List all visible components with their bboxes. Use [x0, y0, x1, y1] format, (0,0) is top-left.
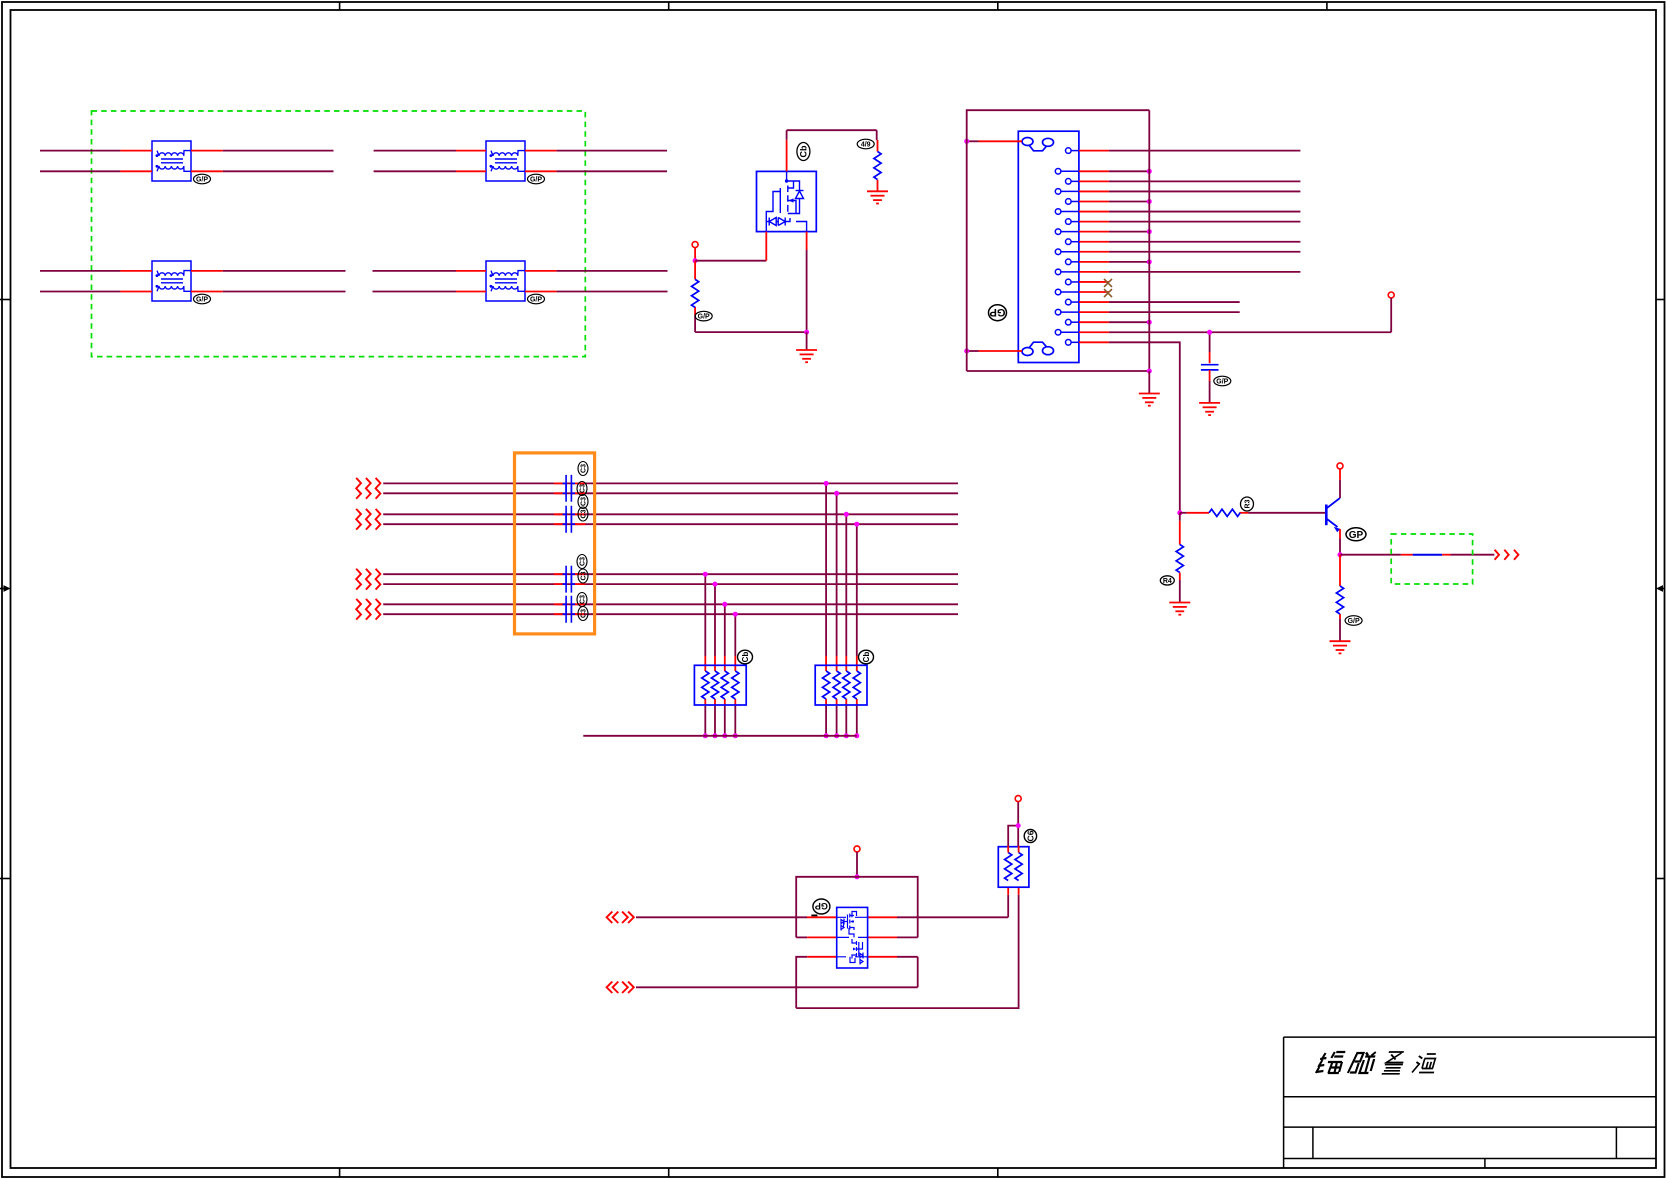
C3 value label — [577, 482, 587, 496]
frame zone tick bottom 2 — [668, 1168, 670, 1177]
C6 value label — [577, 555, 587, 569]
resistor R3 (base series) — [1180, 512, 1325, 514]
resistor network RN1 — [694, 665, 746, 705]
resistor network RN2 — [815, 665, 867, 705]
frame zone tick left 1 — [0, 299, 11, 301]
pin terminal (collector) — [1337, 463, 1343, 469]
wire row2 stubs — [796, 936, 918, 938]
svg-text:G/P: G/P — [1216, 378, 1228, 385]
node top stub — [964, 139, 969, 144]
transformer T1 — [152, 141, 191, 181]
wire RN2 tap 4 — [854, 522, 859, 739]
svg-text:Cb: Cb — [741, 652, 750, 663]
svg-text:C3: C3 — [581, 509, 588, 518]
J1 pin 17 — [1066, 319, 1152, 325]
svg-text:C3: C3 — [580, 557, 587, 566]
J1 pin 11 — [1066, 259, 1152, 265]
resistor R4 (pulldown left) — [1179, 513, 1181, 603]
svg-text:G/P: G/P — [196, 176, 208, 183]
wire top loop — [796, 877, 918, 938]
pin terminal (bottom supply) — [854, 846, 860, 852]
ground (cap) — [1199, 403, 1220, 415]
wire W6 — [383, 583, 958, 585]
pin terminal (row18 top right) — [1388, 292, 1394, 298]
svg-text:GP: GP — [815, 901, 828, 911]
svg-text:G/P: G/P — [530, 176, 542, 183]
T4 right wires — [525, 271, 668, 292]
node cap tap — [1207, 330, 1212, 335]
frame mid arrow left — [0, 585, 11, 592]
J1 pin 4 — [1055, 189, 1300, 195]
wire in1 — [636, 916, 1008, 918]
title block logo text 緯創資通 (hand-drawn strokes) — [1316, 1052, 1439, 1074]
C9 value label — [578, 607, 588, 621]
J1 pin 2 — [1055, 169, 1152, 175]
resistor R5 (emitter) — [1339, 555, 1341, 642]
J1 pin 6 — [1055, 209, 1300, 215]
wire supply drop — [856, 852, 858, 877]
svg-text:C3: C3 — [581, 464, 588, 473]
C1 label G/P — [1214, 376, 1231, 386]
C2 value label — [578, 462, 588, 476]
svg-text:C3: C3 — [580, 484, 587, 493]
J1 label GP (rotated) — [989, 305, 1007, 321]
svg-text:C6: C6 — [1025, 830, 1035, 841]
port marker in1 — [607, 912, 634, 923]
U1 top wire — [787, 130, 877, 171]
ground (U1 circuit) — [796, 350, 817, 362]
frame zone tick top 3 — [997, 2, 999, 10]
wire RN2 tap 2 — [834, 491, 839, 739]
frame zone tick bottom 1 — [339, 1168, 341, 1177]
svg-text:G/P: G/P — [196, 296, 208, 303]
J1 pin 14 — [1055, 289, 1112, 297]
resistor R1 (pulldown) — [694, 261, 696, 332]
svg-text:Cb: Cb — [798, 145, 808, 157]
R4 label — [1160, 576, 1174, 585]
node junction A — [693, 258, 698, 263]
node supply junction — [855, 874, 860, 879]
R1 label G/P — [695, 311, 712, 321]
wire in1 riser to RN3 — [1008, 887, 1018, 917]
wire row3 left — [796, 957, 837, 1008]
wire row3 right — [868, 957, 918, 988]
wire RN1 tap 2 — [713, 582, 718, 739]
transistor Q1 (NPN) — [1326, 498, 1340, 532]
wire bottom loop — [796, 895, 1018, 1008]
svg-text:R4: R4 — [1163, 578, 1172, 585]
port chevrons pair 3 — [356, 569, 380, 590]
wire in2 — [636, 986, 918, 988]
J1 pin 15 — [1066, 299, 1240, 305]
resistor network RN3 — [998, 847, 1029, 888]
J1 pin 10 — [1055, 249, 1300, 255]
svg-text:GP: GP — [990, 306, 1006, 318]
wire RN1 tap 4 — [733, 612, 738, 739]
RN3 label C6 — [1024, 830, 1036, 843]
wire RN1 tap 1 — [703, 572, 708, 739]
frame zone tick bottom 3 — [997, 1168, 999, 1177]
transformer T2 — [486, 141, 525, 181]
capacitor C7 (series on W6) — [563, 576, 575, 593]
T2 left wires — [374, 151, 486, 172]
J1 pin 3 — [1066, 179, 1301, 185]
frame zone tick right 1 — [1656, 299, 1665, 301]
wire pin to junction — [694, 248, 696, 261]
RN3 top stubs — [1008, 802, 1018, 853]
C7 value label — [578, 569, 588, 583]
wire bus to ground — [1148, 371, 1150, 394]
node RN3 junction — [1016, 823, 1021, 828]
wire row18 riser — [1390, 298, 1392, 332]
resistor R2 (top right) — [876, 130, 879, 191]
svg-text:G/P: G/P — [1348, 618, 1360, 625]
T2 label G/P — [528, 174, 545, 184]
T3 label G/P — [194, 294, 211, 304]
C4 value label — [578, 495, 588, 509]
wire emitter to node — [1339, 529, 1341, 555]
ground (R4) — [1169, 603, 1190, 615]
frame zone tick left 2 — [0, 878, 11, 880]
capacitor C8 (series on W7) — [563, 596, 575, 613]
mosfet U1 internals — [766, 171, 806, 231]
svg-text:C3: C3 — [580, 595, 587, 604]
J1 pin 9 — [1066, 239, 1301, 245]
capacitor C3 (series on W2) — [563, 485, 575, 502]
svg-text:G/P: G/P — [698, 314, 710, 321]
wire W8 — [383, 613, 958, 615]
J1 left bottom stub — [967, 350, 1022, 352]
pin terminal (left circle) — [692, 242, 698, 248]
node base junction — [1177, 510, 1182, 515]
port chevrons pair 4 — [356, 599, 380, 620]
R2 label 4/9 — [857, 139, 874, 149]
T1 right wires — [191, 151, 334, 172]
port marker in2 — [607, 982, 634, 993]
Q1 label GP — [1346, 528, 1366, 541]
svg-text:C3: C3 — [581, 609, 588, 618]
wire RN1 tap 3 — [722, 602, 727, 739]
wire W5 — [383, 573, 958, 575]
capacitor C9 (series on W8) — [563, 606, 575, 623]
U1 label Cb — [797, 143, 810, 161]
J1 pin 8 — [1055, 229, 1152, 235]
J1 pin 13 — [1066, 279, 1113, 287]
frame zone tick top 1 — [339, 2, 341, 10]
wire left loop — [967, 110, 1150, 371]
J1 pin 19 — [1066, 340, 1180, 513]
wire junction to ground — [806, 332, 808, 350]
svg-text:4/9: 4/9 — [861, 141, 871, 148]
title block — [1284, 1037, 1656, 1168]
capacitor C5 (series on W4) — [563, 516, 575, 533]
J1 pin 16 — [1055, 309, 1239, 315]
wire RN2 tap 3 — [844, 512, 849, 739]
T1 left wires — [40, 151, 152, 172]
mosfet U1 box — [757, 171, 817, 231]
frame zone tick top 4 — [1326, 2, 1328, 10]
ground (under R2) — [867, 191, 888, 203]
svg-text:C3: C3 — [581, 497, 588, 506]
T1 label G/P — [194, 174, 211, 184]
port chevrons pair 2 — [356, 509, 380, 530]
C5 value label — [578, 507, 588, 521]
J1 mounting ovals top — [1022, 138, 1054, 151]
R5 label G/P — [1345, 616, 1362, 626]
wire W4 — [383, 523, 958, 525]
wire W1 — [383, 482, 958, 484]
wire W2 — [383, 492, 958, 494]
capacitor C1 — [1201, 332, 1219, 403]
J1 pin 7 — [1066, 219, 1301, 225]
mosfet U2 box — [837, 907, 868, 968]
wire W7 — [383, 603, 958, 605]
capacitor C2 (series on W1) — [563, 475, 575, 492]
U2 label GP rotated — [811, 899, 830, 916]
wire junction to U1 pin — [695, 232, 766, 261]
green dashed box (net highlight) — [1391, 534, 1472, 584]
frame zone tick top 2 — [668, 2, 670, 10]
highlight box (orange) — [515, 453, 595, 634]
RN2 label — [859, 650, 874, 664]
wire emitter out (net segment) — [1340, 554, 1494, 556]
wire W3 — [383, 513, 958, 515]
C8 value label — [577, 593, 587, 607]
J1 pin 12 — [1055, 269, 1300, 275]
J1 left top stub — [967, 140, 1022, 142]
J1 mounting ovals bottom — [1022, 342, 1054, 355]
T2 right wires — [525, 151, 667, 172]
T4 left wires — [373, 271, 487, 292]
svg-text:Cb: Cb — [862, 652, 871, 663]
T4 label G/P — [528, 294, 545, 304]
wire collector — [1339, 469, 1341, 498]
mosfet U2 internals — [837, 912, 868, 965]
J1 pin 18 — [1055, 329, 1391, 335]
capacitor C6 (series on W5) — [563, 566, 575, 583]
T3 left wires — [40, 271, 152, 292]
capacitor C4 (series on W3) — [563, 506, 575, 523]
node junction B — [804, 330, 809, 335]
ground (R5) — [1330, 641, 1351, 653]
R3 label — [1241, 497, 1254, 511]
svg-text:C3: C3 — [581, 571, 588, 580]
svg-text:GP: GP — [1349, 530, 1364, 541]
port chevrons pair 1 — [356, 478, 380, 499]
RN1 label — [738, 650, 753, 664]
J1 pin 1 — [1066, 148, 1301, 154]
svg-text:G/P: G/P — [530, 296, 542, 303]
frame mid arrow right — [1656, 585, 1665, 592]
wire bottom horizontal — [967, 370, 1150, 372]
node bottom stub — [964, 349, 969, 354]
transformer T3 — [152, 261, 191, 301]
J1 pin 5 — [1066, 199, 1152, 205]
transformer T4 — [486, 261, 525, 301]
svg-text:R3: R3 — [1245, 499, 1252, 508]
wire bottom to U1 right pin — [695, 232, 807, 333]
node emitter junction — [1338, 552, 1343, 557]
pin terminal (RN3 top) — [1015, 796, 1021, 802]
node bus bottom — [1147, 369, 1152, 374]
ground (bus) — [1139, 394, 1160, 406]
green dashed region box (transformers) — [92, 111, 586, 357]
frame zone tick right 2 — [1656, 878, 1665, 880]
connector J1 body — [1018, 131, 1079, 362]
wire RN common bus — [583, 735, 857, 737]
wire bus vertical — [1148, 110, 1150, 371]
port chevrons out — [1495, 550, 1519, 560]
T3 right wires — [191, 271, 346, 292]
wire RN2 tap 1 — [824, 481, 829, 738]
